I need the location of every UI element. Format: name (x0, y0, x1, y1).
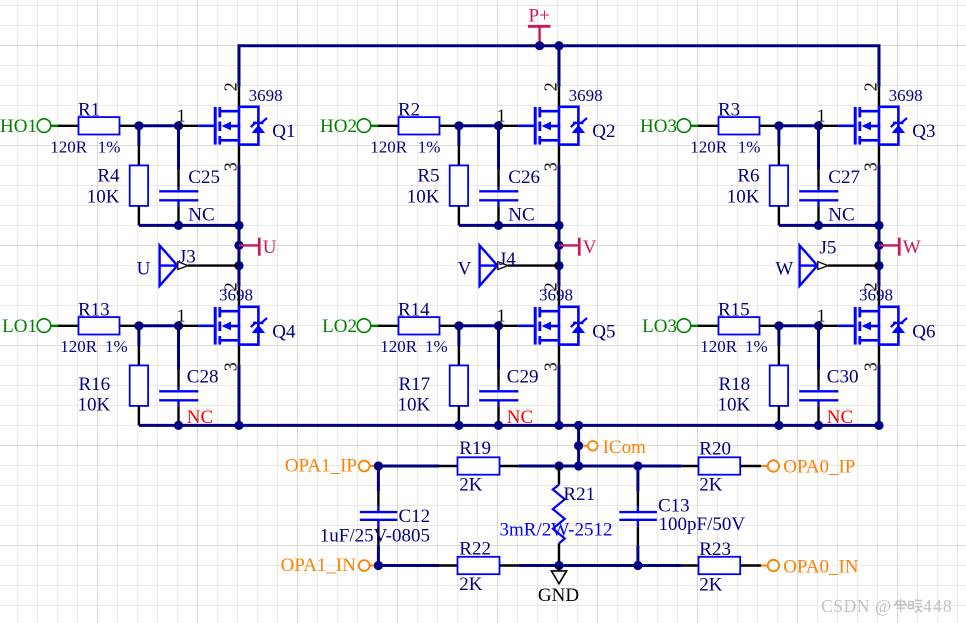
resistor R13 120R (60, 299, 139, 356)
junction (814, 421, 823, 430)
port OPA0_IN (761, 556, 859, 577)
port HO2 (320, 116, 398, 137)
wire P+ rail (239, 46, 879, 87)
svg-text:HO3: HO3 (640, 116, 677, 137)
junction (174, 121, 183, 130)
svg-text:J5: J5 (820, 238, 837, 259)
net label W (879, 237, 921, 258)
svg-text:R14: R14 (398, 299, 430, 320)
svg-text:10K: 10K (77, 395, 110, 416)
junction (554, 241, 563, 250)
wire row1 mid (519, 465, 682, 468)
port ICom (583, 437, 646, 458)
resistor R6 10K (727, 126, 788, 226)
svg-text:1: 1 (177, 105, 186, 125)
junction R18 bottom (774, 421, 783, 430)
svg-text:10K: 10K (397, 395, 430, 416)
svg-text:J3: J3 (179, 247, 196, 268)
port LO1 (2, 316, 78, 337)
svg-text:R16: R16 (79, 374, 111, 395)
capacitor C30 NC (799, 326, 858, 428)
svg-text:1%: 1% (105, 337, 128, 356)
svg-text:1uF/25V-0805: 1uF/25V-0805 (320, 526, 430, 547)
svg-text:C25: C25 (188, 167, 220, 188)
svg-text:1%: 1% (425, 337, 448, 356)
svg-text:120R: 120R (690, 138, 728, 157)
svg-text:C28: C28 (187, 367, 219, 388)
svg-text:448: 448 (923, 596, 953, 616)
junction P+ stem (535, 41, 544, 50)
svg-text:R13: R13 (78, 299, 110, 320)
svg-text:2K: 2K (699, 475, 723, 496)
junction (574, 441, 583, 450)
port LO3 (642, 316, 718, 337)
power port P+ (528, 6, 551, 46)
junction (774, 321, 783, 330)
wire row2 left (378, 564, 439, 567)
svg-text:Q2: Q2 (592, 121, 615, 142)
svg-text:Q6: Q6 (912, 322, 935, 343)
svg-text:10K: 10K (727, 186, 760, 207)
port OPA1_IN (281, 555, 374, 576)
svg-text:1%: 1% (418, 138, 441, 157)
resistor R4 10K (87, 126, 148, 226)
svg-text:120R: 120R (380, 337, 418, 356)
wire row1 left (378, 465, 439, 468)
svg-text:2: 2 (541, 82, 561, 91)
wire gate row (459, 124, 499, 127)
junction ICom column bottom (574, 461, 583, 470)
probe J5 (775, 238, 879, 286)
svg-text:OPA1_IP: OPA1_IP (285, 456, 357, 477)
svg-text:2K: 2K (459, 474, 483, 495)
junction (494, 321, 503, 330)
junction (454, 121, 463, 130)
junction (494, 421, 503, 430)
svg-text:C29: C29 (507, 367, 539, 388)
svg-text:1: 1 (497, 105, 506, 125)
transistor Q2 3698 (497, 82, 616, 171)
svg-text:2: 2 (221, 82, 241, 91)
svg-text:3698: 3698 (569, 86, 603, 105)
svg-text:HO1: HO1 (0, 116, 37, 137)
svg-text:R18: R18 (719, 374, 751, 395)
capacitor C27 NC (799, 126, 860, 226)
port OPA0_IP (761, 457, 855, 478)
resistor R2 120R (370, 99, 459, 156)
junction R17 bottom (454, 421, 463, 430)
junction (774, 121, 783, 130)
svg-text:V: V (583, 237, 597, 258)
svg-text:1: 1 (177, 305, 186, 325)
svg-text:LO1: LO1 (2, 316, 37, 337)
wire phase node column (878, 165, 881, 287)
svg-text:C26: C26 (508, 167, 540, 188)
svg-text:1: 1 (817, 305, 826, 325)
svg-text:W: W (775, 259, 793, 280)
svg-text:P+: P+ (529, 6, 550, 27)
probe J3 (137, 245, 239, 285)
resistor R22 2K (439, 539, 519, 596)
resistor R15 120R (700, 299, 779, 356)
svg-text:GND: GND (538, 585, 579, 606)
svg-text:LO3: LO3 (642, 316, 677, 337)
junction (874, 241, 883, 250)
junction (494, 221, 503, 230)
svg-text:1: 1 (817, 105, 826, 125)
svg-text:3698: 3698 (249, 86, 283, 105)
svg-text:R2: R2 (398, 99, 420, 120)
svg-text:2: 2 (861, 82, 881, 91)
junction (234, 261, 243, 270)
capacitor C29 NC (479, 326, 538, 428)
wire phase node column (558, 165, 561, 287)
resistor R18 10K (717, 326, 788, 426)
junction (874, 221, 883, 230)
svg-text:R3: R3 (718, 99, 740, 120)
transistor Q4 3698 (177, 282, 296, 371)
resistor R16 10K (77, 326, 148, 426)
wire gate row (779, 324, 819, 327)
svg-text:CSDN @: CSDN @ (821, 596, 892, 616)
resistor R1 120R (50, 99, 139, 156)
svg-text:Q4: Q4 (272, 322, 296, 343)
junction R21 bottom / GND (554, 561, 563, 570)
resistor R20 2K (682, 439, 762, 496)
svg-text:W: W (903, 237, 921, 258)
svg-text:Q3: Q3 (912, 121, 935, 142)
junction (554, 421, 563, 430)
port OPA1_IP (285, 456, 374, 477)
wire HO section bottom (139, 224, 239, 227)
junction (554, 221, 563, 230)
svg-text:NC: NC (188, 205, 214, 226)
svg-text:R6: R6 (737, 165, 759, 186)
svg-text:2K: 2K (459, 574, 483, 595)
transistor Q6 3698 (817, 282, 936, 371)
junction (874, 421, 883, 430)
svg-text:OPA0_IN: OPA0_IN (783, 556, 859, 577)
svg-text:R15: R15 (718, 299, 750, 320)
wire Q5 source to rail (558, 365, 561, 426)
ground (538, 566, 579, 607)
capacitor C28 NC (159, 326, 218, 428)
svg-text:1%: 1% (738, 138, 761, 157)
svg-text:R22: R22 (459, 539, 491, 560)
junction Q2 drain on rail (554, 41, 563, 50)
junction (174, 421, 183, 430)
svg-text:J4: J4 (499, 249, 516, 270)
svg-text:R17: R17 (399, 374, 431, 395)
junction (234, 221, 243, 230)
svg-text:R1: R1 (78, 99, 100, 120)
svg-text:LO2: LO2 (322, 316, 357, 337)
junction (814, 321, 823, 330)
junction (494, 121, 503, 130)
svg-text:10K: 10K (407, 186, 440, 207)
svg-text:3mR/2W-2512: 3mR/2W-2512 (500, 519, 613, 540)
wire gate row (459, 324, 499, 327)
capacitor C12 (320, 466, 430, 566)
capacitor C13 (619, 466, 745, 566)
wire HO section bottom (459, 224, 559, 227)
wire Q4 source to rail (238, 365, 241, 426)
junction C13 top (633, 461, 642, 470)
junction (174, 221, 183, 230)
svg-text:120R: 120R (370, 138, 408, 157)
junction (374, 561, 383, 570)
svg-text:OPA0_IP: OPA0_IP (783, 457, 855, 478)
junction (814, 221, 823, 230)
junction (814, 121, 823, 130)
junction (554, 261, 563, 270)
svg-text:2K: 2K (699, 574, 723, 595)
port LO2 (322, 316, 398, 337)
junction (134, 121, 143, 130)
wire ICom rail (139, 424, 879, 427)
svg-text:R21: R21 (563, 484, 595, 505)
wire row2 mid (519, 564, 682, 567)
probe J4 (458, 245, 559, 285)
svg-text:V: V (458, 259, 472, 280)
svg-text:R4: R4 (97, 165, 120, 186)
svg-text:100pF/50V: 100pF/50V (659, 514, 746, 535)
svg-text:10K: 10K (87, 186, 120, 207)
svg-text:NC: NC (508, 205, 534, 226)
capacitor C25 NC (159, 126, 220, 226)
resistor R17 10K (397, 326, 468, 426)
svg-text:U: U (263, 237, 277, 258)
wire gate row (779, 124, 819, 127)
resistor R3 120R (690, 99, 779, 156)
svg-text:R5: R5 (417, 165, 439, 186)
svg-text:120R: 120R (50, 138, 87, 157)
svg-text:Q5: Q5 (592, 322, 615, 343)
transistor Q1 3698 (177, 82, 296, 171)
wire gate row (139, 324, 179, 327)
svg-text:120R: 120R (60, 337, 97, 356)
svg-text:C12: C12 (399, 506, 431, 527)
junction (454, 321, 463, 330)
junction (174, 321, 183, 330)
port HO1 (0, 116, 78, 137)
svg-text:ICom: ICom (603, 437, 647, 458)
net label V (559, 237, 597, 258)
svg-text:OPA1_IN: OPA1_IN (281, 555, 357, 576)
wire Q6 source to rail (878, 365, 881, 426)
wire HO section bottom (779, 224, 879, 227)
junction R21 top (554, 461, 563, 470)
svg-text:R23: R23 (699, 539, 731, 560)
wire Q2 drain drop (558, 46, 561, 87)
svg-text:1: 1 (497, 305, 506, 325)
junction (234, 241, 243, 250)
resistor R5 10K (407, 126, 468, 226)
junction ICom column (574, 421, 583, 430)
junction (134, 321, 143, 330)
svg-text:120R: 120R (700, 337, 738, 356)
svg-text:HO2: HO2 (320, 116, 357, 137)
svg-text:R20: R20 (699, 439, 731, 460)
wire ICom column (577, 425, 580, 466)
svg-text:Q1: Q1 (272, 121, 295, 142)
wire gate row (139, 124, 179, 127)
svg-text:R19: R19 (459, 438, 491, 459)
junction (874, 261, 883, 270)
resistor R19 2K (439, 438, 519, 495)
capacitor C26 NC (479, 126, 540, 226)
svg-text:3698: 3698 (889, 86, 923, 105)
transistor Q5 3698 (497, 282, 616, 371)
svg-text:U: U (137, 259, 151, 280)
junction C13 bottom (633, 561, 642, 570)
port HO3 (640, 116, 718, 137)
svg-text:NC: NC (828, 205, 854, 226)
junction (374, 461, 383, 470)
junction (234, 421, 243, 430)
svg-text:1%: 1% (745, 337, 768, 356)
svg-text:C27: C27 (828, 167, 860, 188)
svg-text:C30: C30 (827, 367, 859, 388)
svg-text:1%: 1% (98, 138, 121, 157)
net label U (239, 237, 277, 258)
resistor R14 120R (380, 299, 459, 356)
svg-text:10K: 10K (717, 395, 750, 416)
resistor R23 2K (682, 539, 762, 595)
resistor R21 3mR (500, 466, 613, 566)
transistor Q3 3698 (817, 82, 936, 171)
wire phase node column (238, 165, 241, 287)
